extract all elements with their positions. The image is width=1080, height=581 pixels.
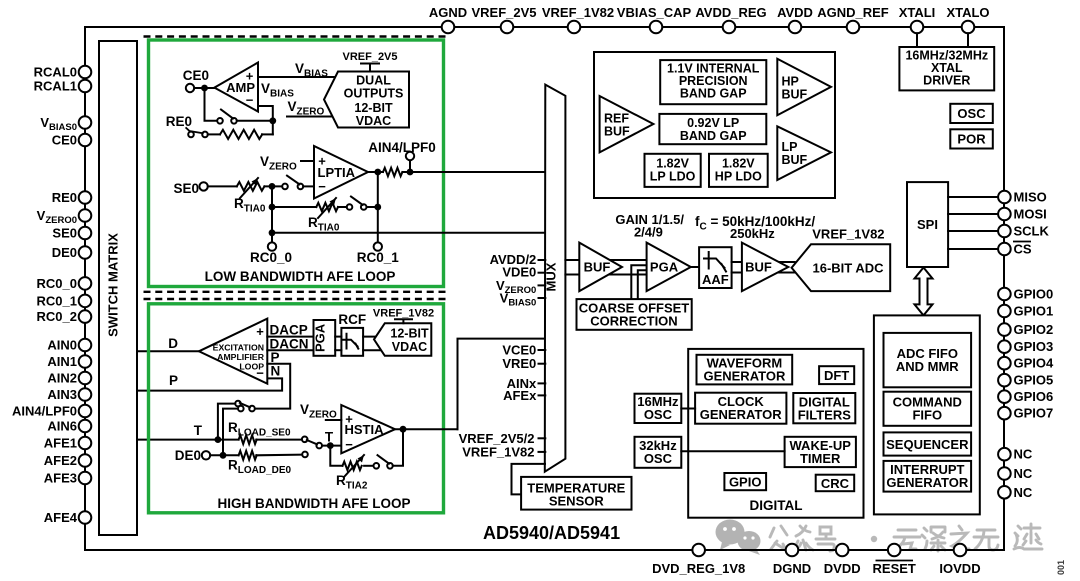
svg-text:SCLK: SCLK — [1014, 224, 1050, 239]
svg-text:VZERO0: VZERO0 — [37, 208, 77, 226]
pin AFE4 (left) — [79, 511, 92, 524]
junction LPTIA output — [374, 169, 381, 176]
svg-text:LP LDO: LP LDO — [650, 170, 696, 184]
wire RCF to 12-bit VDAC (lower) — [363, 349, 380, 351]
pin RCAL1 (left) — [79, 80, 92, 93]
svg-text:DGND: DGND — [773, 561, 811, 576]
svg-text:RC0_1: RC0_1 — [357, 250, 400, 265]
wire P input to selector — [255, 364, 290, 409]
switch SE0 to LPTIA minus — [282, 184, 288, 190]
op-amp LPTIA — [314, 146, 368, 199]
switch in RTIA0 feedback — [347, 204, 353, 210]
GPIO box — [724, 473, 766, 490]
CLOCK GENERATOR box — [695, 393, 786, 424]
POR block — [950, 129, 993, 148]
coarse offset correction block — [577, 299, 692, 330]
svg-text:GPIO0: GPIO0 — [1014, 287, 1054, 302]
wire RTIA0 to junction — [264, 185, 282, 187]
watermark char 迹 — [1014, 524, 1042, 549]
svg-text:OSC: OSC — [644, 407, 673, 422]
svg-text:AND MMR: AND MMR — [896, 359, 959, 374]
junction DE0 node — [220, 452, 227, 459]
pin AGND (top) — [442, 21, 455, 34]
svg-text:SWITCH MATRIX: SWITCH MATRIX — [106, 233, 121, 337]
svg-text:+: + — [246, 69, 254, 84]
svg-text:12-BIT: 12-BIT — [354, 101, 393, 115]
svg-text:DVD_REG_1V8: DVD_REG_1V8 — [652, 561, 745, 576]
low bandwidth AFE loop green box — [149, 40, 444, 287]
svg-text:DFT: DFT — [824, 368, 849, 383]
svg-text:VDE0: VDE0 — [502, 265, 536, 280]
svg-text:250kHz: 250kHz — [730, 226, 775, 241]
ADC 16-bit tag shape — [792, 244, 891, 291]
svg-text:VBIAS_CAP: VBIAS_CAP — [617, 5, 692, 20]
0.92V LP band gap box — [659, 114, 766, 144]
resistor RTIA0 (feedback, variable) — [316, 203, 338, 211]
pin AIN3 (left) — [79, 388, 92, 401]
watermark wechat icon — [716, 520, 761, 556]
pin GPIO1 (right) — [998, 305, 1011, 318]
svg-text:AIN6: AIN6 — [47, 419, 77, 434]
svg-text:LOW BANDWIDTH AFE LOOP: LOW BANDWIDTH AFE LOOP — [205, 269, 396, 284]
svg-text:XTALO: XTALO — [946, 5, 989, 20]
wire pair AAF to ADC (upper) — [732, 261, 795, 263]
wire DACN — [267, 349, 313, 351]
wire resistor to AIN4 node — [402, 171, 410, 173]
reference tick symbol VREF_2V5 — [361, 64, 379, 72]
wire D from switch matrix — [137, 350, 199, 352]
svg-text:T: T — [325, 430, 334, 445]
wire RTIA2 to switch — [364, 465, 373, 467]
band gap / reference block — [594, 52, 835, 198]
wire RLOAD_DE0 to open contact — [256, 454, 302, 457]
wire to RTIA0 feedback — [272, 206, 316, 208]
svg-text:AD5940/AD5941: AD5940/AD5941 — [483, 523, 620, 543]
svg-text:VDAC: VDAC — [356, 114, 391, 128]
wire AMP output to CE0 — [194, 87, 214, 89]
pin AVDD (top) — [789, 21, 802, 34]
svg-text:D: D — [168, 336, 178, 351]
svg-text:XTALI: XTALI — [899, 5, 936, 20]
pin XTALI (top) — [911, 21, 924, 34]
svg-text:RCAL1: RCAL1 — [34, 79, 77, 94]
svg-text:REF: REF — [604, 112, 629, 126]
watermark char 公 — [770, 526, 787, 550]
wire XTALI to XTAL driver — [916, 33, 918, 47]
svg-text:AGND: AGND — [429, 5, 467, 20]
svg-text:AIN4/LPF0: AIN4/LPF0 — [12, 404, 77, 419]
svg-text:+: + — [256, 324, 264, 339]
svg-text:FILTERS: FILTERS — [798, 407, 852, 422]
svg-text:VZERO: VZERO — [288, 99, 325, 118]
svg-text:PGA: PGA — [650, 260, 679, 275]
svg-text:BAND GAP: BAND GAP — [680, 87, 747, 101]
svg-text:LP: LP — [782, 140, 798, 154]
svg-text:AFE2: AFE2 — [44, 453, 77, 468]
op-amp HSTIA — [341, 405, 395, 453]
pin CS (right) — [998, 243, 1011, 256]
terminal RC0_1 — [374, 242, 382, 250]
pin AIN2 (left) — [79, 372, 92, 385]
svg-text:MUX: MUX — [544, 262, 559, 291]
coarse offset correction wire 2 — [638, 270, 647, 299]
svg-text:VZERO: VZERO — [260, 154, 297, 173]
watermark text placeholder — [770, 524, 1042, 551]
high bandwidth AFE loop green box — [149, 304, 444, 513]
svg-text:BUF: BUF — [745, 260, 772, 275]
COMMAND FIFO box — [884, 392, 972, 426]
wire HSTIA output right — [395, 428, 458, 430]
svg-text:BUF: BUF — [604, 125, 630, 139]
svg-text:CS: CS — [1014, 242, 1032, 257]
wire AMP minus input to feedback node — [258, 106, 273, 134]
svg-text:RE0: RE0 — [166, 114, 192, 129]
pin VREF_1V82 (top) — [568, 21, 581, 34]
wire switch up to HSTIA output — [393, 429, 403, 466]
wire 16MHz OSC to clock generator — [681, 408, 695, 410]
svg-text:HP: HP — [782, 75, 799, 89]
svg-text:GENERATOR: GENERATOR — [703, 368, 785, 383]
pin GPIO5 (right) — [998, 374, 1011, 387]
SPI block — [907, 182, 948, 267]
junction at AMP output — [201, 85, 208, 92]
op-amp AMP (mirrored, apex left) — [214, 63, 258, 112]
svg-text:RTIA2: RTIA2 — [336, 473, 368, 492]
svg-text:GPIO5: GPIO5 — [1014, 373, 1054, 388]
INTERRUPT GENERATOR box — [884, 461, 972, 492]
selector switch SE0/DE0 — [235, 401, 241, 407]
buffer BUF1 — [579, 243, 622, 292]
pin CE0 (left) — [79, 134, 92, 147]
wire pair AAF to ADC (lower) — [732, 272, 795, 274]
pin AIN1 (left) — [79, 355, 92, 368]
svg-text:NC: NC — [1014, 447, 1033, 462]
svg-text:1.82V: 1.82V — [656, 157, 689, 171]
wire VZERO into LPTIA plus — [301, 160, 314, 162]
1.1V internal precision band gap box — [660, 60, 766, 104]
svg-text:OSC: OSC — [644, 451, 673, 466]
pin DVDD (bottom) — [836, 544, 849, 557]
1.82V HP LDO box — [709, 154, 768, 187]
switch at RCAL resistor row — [188, 132, 194, 138]
svg-text:SE0: SE0 — [52, 226, 77, 241]
terminal SE0 — [199, 182, 207, 190]
svg-text:1.82V: 1.82V — [722, 157, 755, 171]
watermark dot separator — [871, 536, 877, 542]
watermark char 深 — [922, 527, 945, 551]
switch in RTIA2 path — [374, 463, 380, 469]
svg-text:RC0_0: RC0_0 — [37, 276, 77, 291]
svg-text:TIMER: TIMER — [800, 451, 841, 466]
svg-text:IOVDD: IOVDD — [939, 561, 980, 576]
svg-text:SE0: SE0 — [173, 181, 199, 196]
wire VZERO into HSTIA plus — [326, 419, 342, 421]
wire selector upper contact to T node — [218, 404, 235, 440]
pin AIN0 (left) — [79, 339, 92, 352]
svg-text:T: T — [194, 423, 203, 438]
svg-text:AFE3: AFE3 — [44, 471, 77, 486]
svg-text:+: + — [345, 411, 353, 426]
svg-text:AIN2: AIN2 — [47, 371, 77, 386]
svg-text:2/4/9: 2/4/9 — [634, 225, 663, 240]
svg-text:AVDD_REG: AVDD_REG — [695, 5, 766, 20]
svg-text:VREF_1V82: VREF_1V82 — [542, 5, 614, 20]
svg-text:RC0_2: RC0_2 — [37, 309, 77, 324]
terminal RC0_0 — [268, 242, 276, 250]
1.82V LP LDO box — [645, 154, 701, 187]
wire feedback to output node — [338, 206, 347, 208]
svg-text:VREF_1V82: VREF_1V82 — [812, 227, 884, 242]
svg-text:POR: POR — [957, 132, 986, 147]
wire SE0 node down feedback row — [271, 186, 273, 232]
wire pair MUX to PGA (upper) — [565, 259, 646, 261]
pin VZERO0 (left) — [79, 209, 92, 222]
svg-text:DE0: DE0 — [175, 448, 201, 463]
dashed outline above low bandwidth loop — [144, 35, 449, 37]
pin DE0 (left) — [79, 246, 92, 259]
svg-text:VREF_2V5: VREF_2V5 — [471, 5, 536, 20]
svg-text:P: P — [169, 373, 178, 388]
pin SE0 (left) — [79, 227, 92, 240]
wire PGA to AAF — [691, 266, 699, 268]
svg-text:CORRECTION: CORRECTION — [590, 314, 677, 329]
junction SE0 node — [269, 183, 276, 190]
pin RC0_2 (left) — [79, 310, 92, 323]
svg-text:BUF: BUF — [782, 88, 808, 102]
pin DGND (bottom) — [786, 544, 799, 557]
svg-text:DUAL: DUAL — [356, 74, 391, 88]
digital block — [688, 349, 863, 518]
resistor in RE0 path — [220, 130, 262, 139]
pin VREF_2V5 (top) — [501, 21, 514, 34]
pin GPIO3 (right) — [998, 340, 1011, 353]
pin NC (right) — [998, 448, 1011, 461]
coarse offset correction wire 1 — [631, 265, 646, 299]
temperature sensor block — [521, 477, 631, 510]
svg-text:MISO: MISO — [1014, 190, 1047, 205]
pin AFE3 (left) — [79, 472, 92, 485]
svg-text:DVDD: DVDD — [824, 561, 861, 576]
svg-text:16-BIT ADC: 16-BIT ADC — [812, 261, 884, 276]
wire RC0 row down — [271, 233, 273, 243]
svg-text:RCF: RCF — [338, 312, 366, 327]
wire XTALO to XTAL driver — [967, 33, 969, 47]
svg-text:RCAL0: RCAL0 — [34, 65, 77, 80]
dashed outline below low bandwidth loop — [144, 291, 449, 293]
svg-text:GENERATOR: GENERATOR — [886, 475, 968, 490]
terminal AIN4/LPF0 — [406, 152, 414, 160]
svg-text:AIN3: AIN3 — [47, 387, 77, 402]
svg-text:−: − — [318, 179, 326, 194]
wire HSTIA output up to MUX — [458, 339, 546, 430]
XTAL driver block — [899, 47, 994, 90]
pin MOSI (right) — [998, 208, 1011, 221]
WAKE-UP TIMER box — [785, 437, 856, 467]
amplifier PGA — [647, 243, 691, 292]
svg-text:001: 001 — [1056, 560, 1066, 575]
wire T from switch matrix — [137, 439, 239, 441]
pin NC (right) — [998, 467, 1011, 480]
DFT box — [819, 366, 854, 384]
wire LPTIA output to MUX — [410, 171, 545, 173]
FIFO/sequencer outer block — [874, 315, 980, 514]
pin DVD_REG_1V8 (bottom) — [692, 544, 705, 557]
pin RESET (bottom, active low) — [888, 544, 901, 557]
filter RCF block — [341, 328, 363, 356]
svg-text:VBIAS0: VBIAS0 — [40, 115, 77, 133]
wire pair MUX to PGA (lower) — [565, 274, 646, 276]
pin RC0_1 (left) — [79, 295, 92, 308]
pin AVDD_REG (top) — [723, 21, 736, 34]
SEQUENCER box — [884, 432, 972, 455]
svg-text:SENSOR: SENSOR — [549, 494, 605, 509]
svg-text:GPIO1: GPIO1 — [1014, 304, 1054, 319]
wire RC0_1 drop — [377, 207, 379, 242]
svg-text:DE0: DE0 — [52, 245, 77, 260]
svg-text:VBIAS: VBIAS — [261, 81, 294, 100]
wire PGA to RCF (upper) — [335, 336, 341, 338]
svg-text:HIGH BANDWIDTH AFE LOOP: HIGH BANDWIDTH AFE LOOP — [218, 496, 411, 511]
resistor RLOAD_SE0 — [239, 435, 257, 444]
watermark char 众 — [794, 526, 813, 550]
svg-text:SPI: SPI — [917, 217, 938, 232]
pin XTALO (top) — [962, 21, 975, 34]
svg-text:SEQUENCER: SEQUENCER — [886, 437, 969, 452]
wire feedback up to output — [377, 172, 379, 207]
resistor RTIA0 (input, variable) — [237, 182, 265, 191]
svg-text:GPIO2: GPIO2 — [1014, 322, 1054, 337]
wire selector lower contact to DE0 line — [223, 409, 238, 456]
wire MUX to temperature sensor — [512, 464, 546, 495]
wire SPI to CS — [948, 248, 998, 250]
16MHz OSC block — [635, 394, 682, 423]
DIGITAL FILTERS box — [793, 393, 855, 423]
terminal DE0 — [202, 451, 210, 459]
wire T node down to RTIA2 — [330, 446, 342, 466]
chip outer border — [85, 27, 1004, 550]
wire SPI to MISO — [948, 196, 998, 198]
svg-text:0.92V LP: 0.92V LP — [687, 116, 739, 130]
junction RC0 row — [269, 229, 276, 236]
svg-text:AFEx: AFEx — [503, 388, 537, 403]
svg-text:BUF: BUF — [584, 260, 611, 275]
pin AIN4/LPF0 (left) — [79, 405, 92, 418]
open contact DE0 path — [302, 452, 308, 458]
svg-text:OUTPUTS: OUTPUTS — [344, 87, 404, 101]
svg-text:RTIA0: RTIA0 — [234, 196, 266, 215]
svg-text:DACP: DACP — [270, 323, 308, 338]
wire resistor to feedback node — [262, 133, 273, 135]
svg-text:AIN1: AIN1 — [47, 354, 77, 369]
pin AFE2 (left) — [79, 454, 92, 467]
svg-text:BAND GAP: BAND GAP — [680, 129, 747, 143]
svg-text:GPIO7: GPIO7 — [1014, 406, 1054, 421]
svg-text:N: N — [271, 364, 281, 379]
svg-text:12-BIT: 12-BIT — [390, 327, 429, 341]
svg-text:GPIO6: GPIO6 — [1014, 389, 1054, 404]
pin IOVDD (bottom) — [954, 544, 967, 557]
svg-text:CE0: CE0 — [183, 68, 209, 83]
wire AMP output down to RE0 switch — [205, 88, 218, 121]
wire VZERO to VDAC — [287, 116, 334, 118]
svg-text:AVDD: AVDD — [777, 5, 813, 20]
svg-text:AIN0: AIN0 — [47, 338, 77, 353]
buffer LP BUF — [777, 126, 831, 180]
svg-text:GPIO3: GPIO3 — [1014, 339, 1054, 354]
wire contact to T junction — [322, 445, 341, 447]
svg-text:HP LDO: HP LDO — [715, 170, 762, 184]
svg-text:PGA: PGA — [312, 323, 327, 352]
svg-text:AFE4: AFE4 — [44, 510, 78, 525]
svg-text:VREF_2V5: VREF_2V5 — [342, 51, 397, 63]
dual output 12-bit VDAC tag shape — [324, 72, 409, 128]
svg-text:NC: NC — [1014, 466, 1033, 481]
svg-text:VZERO: VZERO — [300, 402, 337, 421]
filter AAF block — [699, 247, 732, 288]
resistor RTIA2 (variable) — [343, 462, 362, 470]
buffer HP BUF — [777, 59, 831, 115]
svg-text:RTIA0: RTIA0 — [308, 215, 340, 234]
junction output feedback — [374, 204, 381, 211]
switch matrix block — [99, 41, 137, 535]
ADC FIFO and MMR box — [884, 333, 972, 387]
svg-text:AFE1: AFE1 — [44, 436, 77, 451]
wire RLOAD_SE0 to switch — [256, 439, 302, 441]
analog MUX — [545, 85, 566, 472]
double-headed hollow arrow SPI to FIFO — [915, 268, 933, 316]
junction feedback row — [269, 204, 276, 211]
junction feedback node — [269, 117, 276, 124]
pin NC (right) — [998, 486, 1011, 499]
svg-text:OSC: OSC — [957, 106, 986, 121]
svg-text:MOSI: MOSI — [1014, 207, 1047, 222]
op-amp excitation amplifier (mirrored, apex left) — [199, 319, 267, 384]
resistor at LPTIA output — [383, 168, 402, 176]
svg-text:+: + — [318, 154, 326, 169]
reference tick symbol VREF_1V82 — [395, 319, 412, 323]
watermark char 云 — [894, 530, 920, 549]
svg-text:RESET: RESET — [873, 561, 916, 576]
svg-text:VDAC: VDAC — [392, 340, 427, 354]
pin MISO (right) — [998, 191, 1011, 204]
amplifier PGA (excitation, rotated label) — [314, 320, 336, 356]
svg-text:GPIO4: GPIO4 — [1014, 356, 1055, 371]
svg-text:VREF_1V82: VREF_1V82 — [373, 308, 434, 320]
OSC block — [950, 104, 993, 123]
svg-text:−: − — [256, 366, 264, 381]
wire SE0 to RTIA0 — [208, 185, 237, 187]
svg-text:EXCITATION: EXCITATION — [213, 343, 264, 353]
pin RCAL0 (left) — [79, 66, 92, 79]
switch in RE0 feedback path — [217, 118, 223, 124]
pin GPIO7 (right) — [998, 407, 1011, 420]
svg-text:−: − — [246, 93, 254, 108]
svg-text:VRE0: VRE0 — [502, 356, 536, 371]
pin VBIAS0 (left) — [79, 116, 92, 129]
watermark char 号 — [816, 527, 835, 551]
svg-text:VREF_1V82: VREF_1V82 — [462, 444, 534, 459]
svg-text:AGND_REF: AGND_REF — [817, 5, 889, 20]
wire P from switch matrix to N input jog — [137, 378, 282, 390]
svg-text:BUF: BUF — [782, 153, 808, 167]
pin RC0_0 (left) — [79, 277, 92, 290]
svg-text:GPIO: GPIO — [729, 475, 762, 490]
pin AFE1 (left) — [79, 437, 92, 450]
wire DE0 to RLOAD_DE0 — [210, 454, 238, 456]
wire DACP — [267, 336, 313, 338]
wire RCF to 12-bit VDAC (upper) — [363, 336, 380, 338]
wire SPI to MOSI — [948, 213, 998, 215]
